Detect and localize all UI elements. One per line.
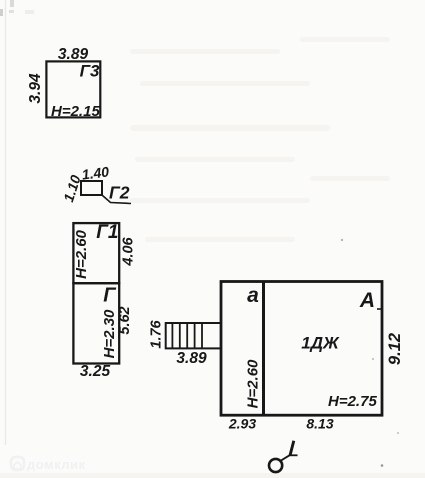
noise dot 2 bbox=[372, 358, 374, 360]
svg-text:2.93: 2.93 bbox=[228, 416, 256, 432]
svg-text:8.13: 8.13 bbox=[306, 416, 333, 432]
corner scan mark 1 bbox=[0, 9, 3, 16]
svg-text:H=2.60: H=2.60 bbox=[73, 229, 90, 278]
scan artifact left edge line bbox=[5, 0, 7, 445]
svg-text:1ДЖ: 1ДЖ bbox=[301, 334, 340, 353]
svg-text:домклик: домклик bbox=[27, 457, 86, 472]
svg-text:3.89: 3.89 bbox=[176, 350, 207, 367]
svg-text:3.94: 3.94 bbox=[27, 73, 44, 104]
house inner wall bbox=[262, 282, 265, 416]
shed Г1 outline bbox=[73, 223, 119, 283]
svg-text:1.76: 1.76 bbox=[149, 319, 165, 348]
svg-text:4.06: 4.06 bbox=[121, 236, 137, 266]
svg-text:H=2.60: H=2.60 bbox=[245, 359, 262, 408]
watermark logo bbox=[11, 457, 24, 470]
noise dot 1 bbox=[341, 239, 343, 241]
svg-text:Г: Г bbox=[103, 285, 117, 307]
survey point circle bbox=[269, 459, 282, 472]
svg-text:А: А bbox=[359, 289, 375, 312]
shed Г3 outline bbox=[46, 61, 100, 117]
svg-text:H=2.15: H=2.15 bbox=[51, 103, 100, 120]
shed Г2 outline bbox=[81, 181, 102, 195]
corner scan mark 4 bbox=[25, 10, 34, 14]
svg-text:а: а bbox=[247, 284, 259, 307]
noise dot 4 bbox=[381, 464, 384, 467]
svg-text:3.25: 3.25 bbox=[80, 363, 111, 380]
porch steps outline bbox=[166, 323, 221, 348]
survey point foot bbox=[289, 454, 298, 456]
svg-text:3.89: 3.89 bbox=[58, 46, 89, 63]
survey point leader bbox=[281, 455, 290, 461]
noise dot 3 bbox=[397, 432, 399, 434]
wall tick mark bbox=[377, 308, 382, 310]
shed Г outline bbox=[73, 283, 119, 363]
svg-text:1.40: 1.40 bbox=[81, 163, 110, 182]
svg-text:5.62: 5.62 bbox=[117, 306, 133, 334]
svg-text:9.12: 9.12 bbox=[386, 333, 404, 365]
svg-text:H=2.75: H=2.75 bbox=[328, 393, 377, 410]
leader line to Г2 label bbox=[103, 196, 132, 204]
porch step treads bbox=[172, 323, 202, 348]
survey point flag stroke bbox=[290, 441, 294, 456]
corner scan mark 2 bbox=[10, 0, 14, 7]
svg-text:Г1: Г1 bbox=[96, 222, 118, 243]
svg-text:Г3: Г3 bbox=[80, 62, 100, 81]
house outline bbox=[221, 282, 382, 416]
svg-text:Г2: Г2 bbox=[109, 183, 130, 203]
svg-text:H=2.30: H=2.30 bbox=[101, 309, 118, 358]
corner scan mark 3 bbox=[9, 10, 14, 13]
